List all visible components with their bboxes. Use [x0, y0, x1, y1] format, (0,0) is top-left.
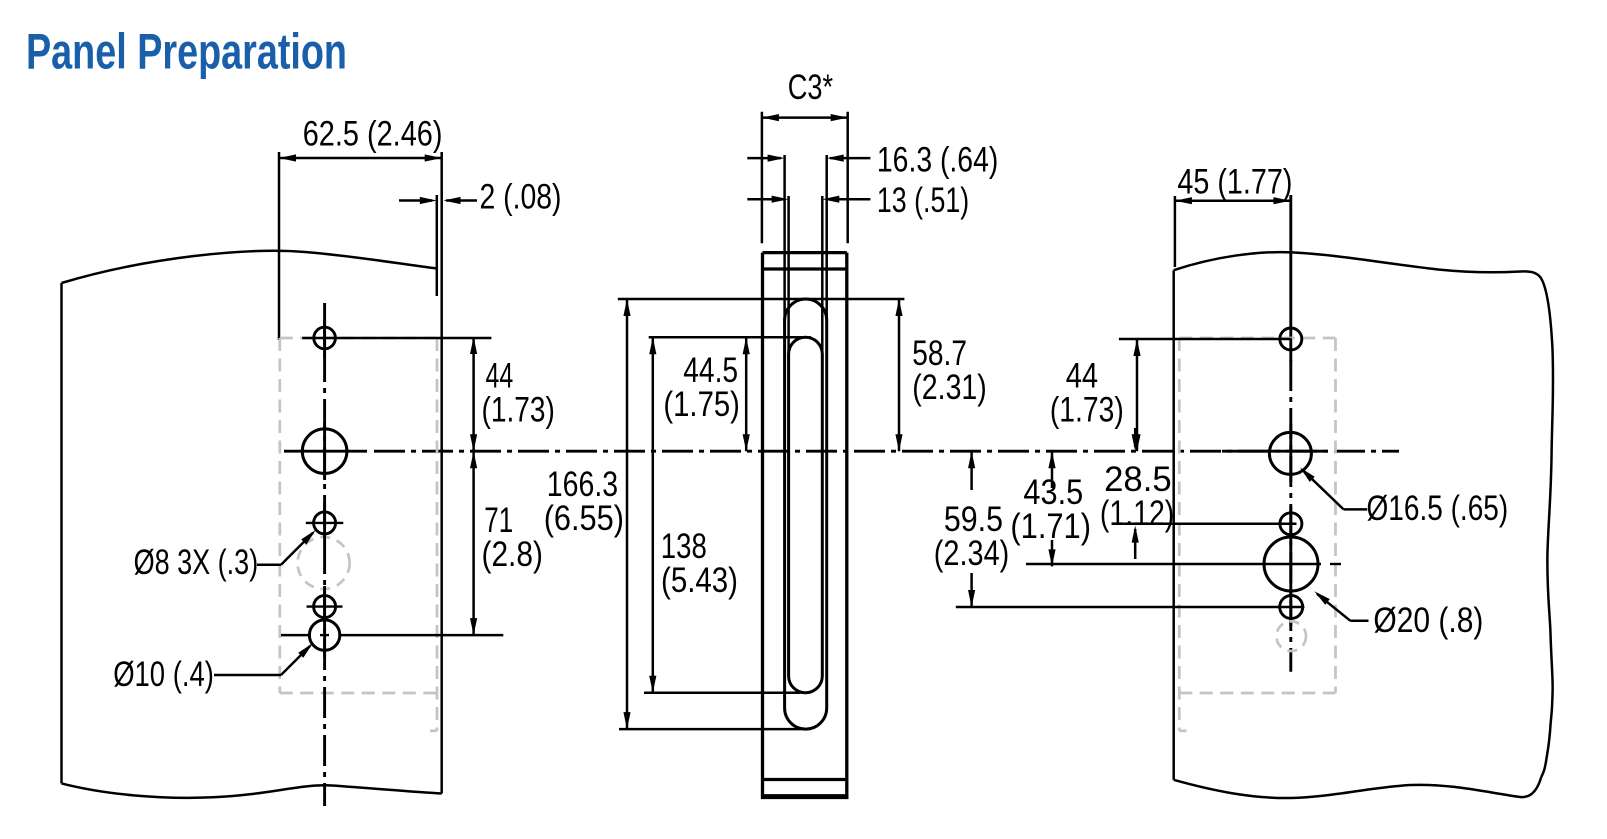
svg-text:2 (.08): 2 (.08)	[480, 178, 562, 217]
svg-text:45 (1.77): 45 (1.77)	[1177, 163, 1292, 202]
svg-text:(1.75): (1.75)	[663, 385, 740, 424]
svg-text:(1.71): (1.71)	[1010, 507, 1091, 546]
svg-text:(1.73): (1.73)	[1050, 390, 1124, 429]
svg-text:(2.31): (2.31)	[912, 368, 987, 407]
svg-text:Ø20 (.8): Ø20 (.8)	[1373, 601, 1483, 640]
svg-text:13 (.51): 13 (.51)	[877, 181, 969, 220]
svg-text:Ø8 3X (.3): Ø8 3X (.3)	[134, 543, 259, 582]
svg-text:Ø10 (.4): Ø10 (.4)	[113, 655, 214, 694]
svg-text:(5.43): (5.43)	[661, 561, 738, 600]
svg-text:Ø16.5 (.65): Ø16.5 (.65)	[1367, 489, 1509, 528]
svg-text:Panel Preparation: Panel Preparation	[26, 24, 347, 80]
svg-text:(1.73): (1.73)	[482, 390, 555, 429]
svg-text:C3*: C3*	[788, 68, 834, 107]
svg-text:(1.12): (1.12)	[1100, 494, 1174, 533]
svg-text:(2.34): (2.34)	[934, 534, 1010, 573]
svg-text:(2.8): (2.8)	[482, 535, 543, 574]
svg-text:62.5 (2.46): 62.5 (2.46)	[303, 115, 443, 154]
svg-text:(6.55): (6.55)	[544, 499, 624, 538]
svg-text:16.3 (.64): 16.3 (.64)	[877, 141, 998, 180]
